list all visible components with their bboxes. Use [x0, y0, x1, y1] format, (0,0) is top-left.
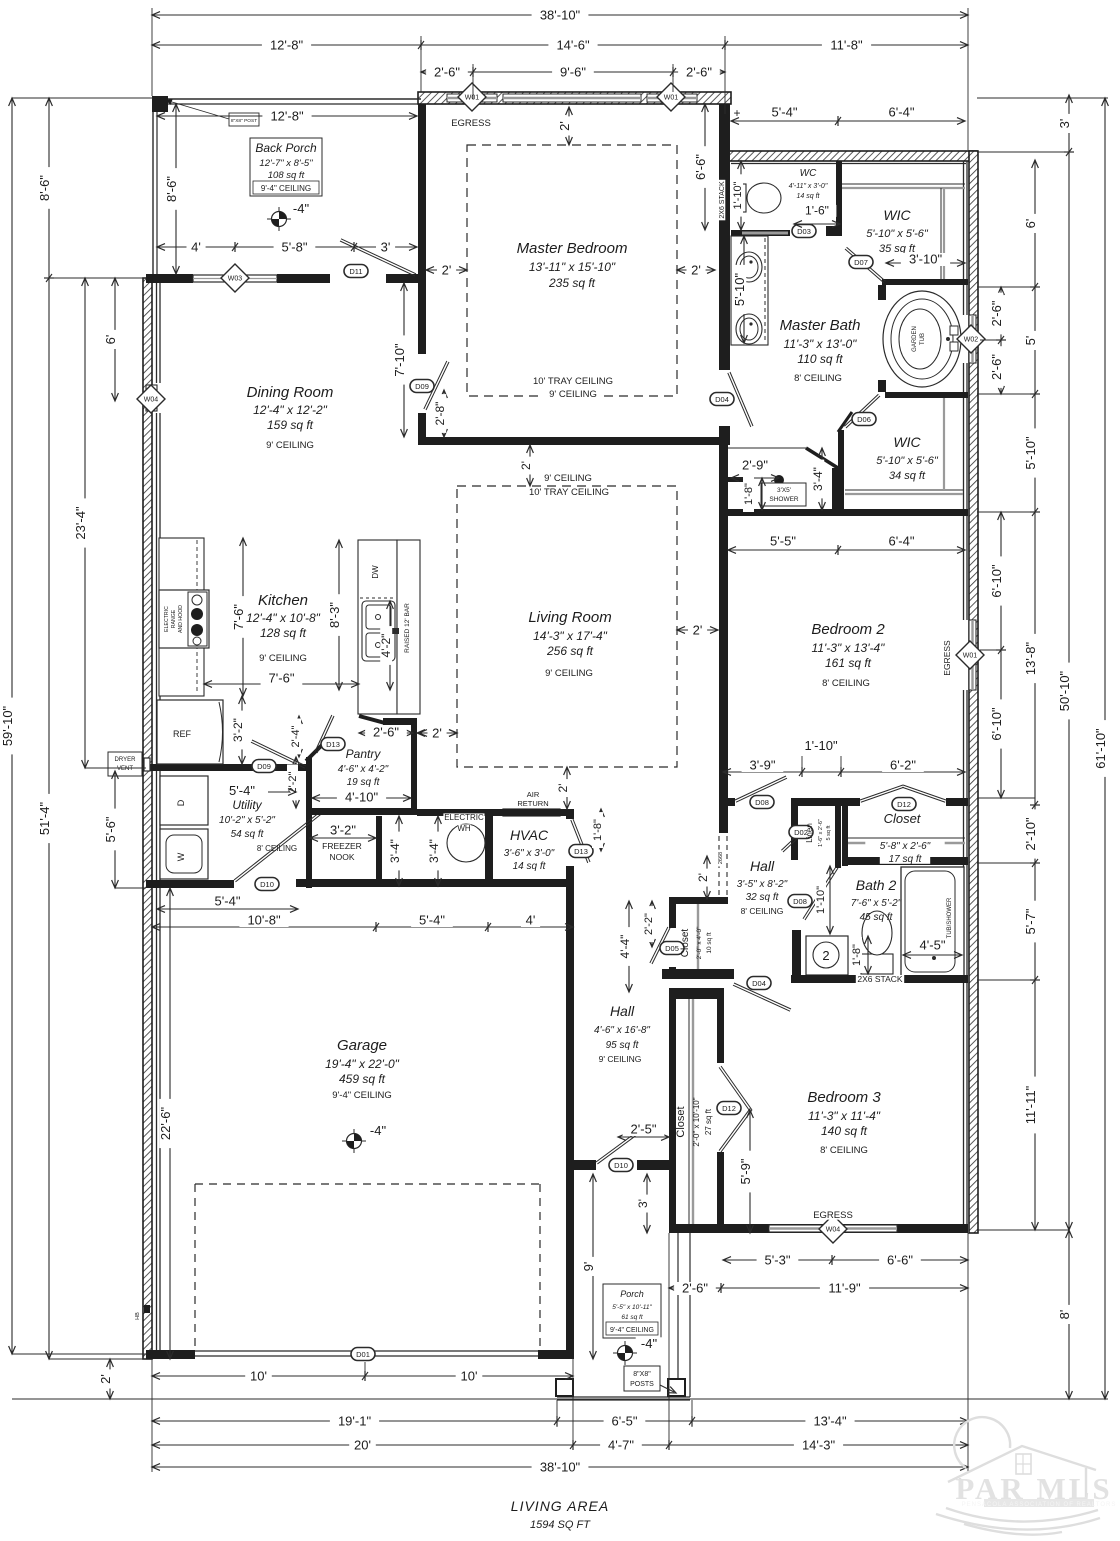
svg-text:RANGE: RANGE [171, 609, 177, 628]
svg-text:2'-5": 2'-5" [631, 1122, 657, 1137]
door D04 master bath leaf [730, 372, 753, 426]
door D01 oval label [351, 1348, 375, 1361]
svg-text:W01: W01 [664, 95, 679, 102]
svg-text:Hall: Hall [610, 1003, 635, 1019]
wall: WC south wall with pocket door D03 [731, 230, 790, 236]
front porch post right [668, 1379, 685, 1396]
WC toilet bowl [747, 183, 781, 213]
window W01 bedroom2 diamond [956, 641, 984, 669]
svg-text:6'-5": 6'-5" [612, 1414, 638, 1429]
wall: hall south wall east piece [637, 1160, 669, 1170]
svg-text:7'-10": 7'-10" [392, 343, 407, 377]
svg-text:AND HOOD: AND HOOD [178, 605, 184, 633]
svg-text:D04: D04 [715, 395, 729, 404]
svg-text:6': 6' [1023, 219, 1038, 229]
svg-text:8"X8" POST: 8"X8" POST [231, 118, 257, 124]
svg-text:D09: D09 [415, 382, 429, 391]
svg-text:14'-3": 14'-3" [802, 1438, 836, 1453]
left dim chain 59'-10 [11, 98, 13, 1354]
svg-text:5'-10" x 5'-6": 5'-10" x 5'-6" [866, 228, 929, 240]
dim shower 2'-9 [731, 477, 779, 479]
svg-text:4'-2": 4'-2" [379, 634, 393, 658]
svg-text:Closet: Closet [884, 811, 922, 826]
svg-text:4'-5": 4'-5" [920, 938, 946, 953]
svg-text:8' CEILING: 8' CEILING [741, 906, 784, 916]
shower drain [774, 475, 784, 485]
dim utility 5'-4 lower [157, 908, 298, 910]
back porch corner post 8x8 [152, 96, 168, 112]
svg-text:Porch: Porch [620, 1289, 644, 1299]
svg-text:5'-10": 5'-10" [732, 273, 747, 307]
svg-text:3'-4": 3'-4" [388, 839, 402, 863]
dim bottom garage 10' / 10' [152, 1375, 573, 1377]
svg-text:4': 4' [526, 913, 536, 928]
door D08 bath2 oval label [788, 895, 812, 908]
right dim chain 6'/5'/5'-10/13'-8/2'-10/5'-7/11'-11 [1034, 160, 1036, 1230]
svg-text:8'-3": 8'-3" [327, 602, 342, 628]
hose bib HB mark [135, 1311, 141, 1321]
door D04 oval label [710, 393, 734, 406]
dim REF 3'-2 vertical [241, 696, 243, 764]
svg-text:3'-2": 3'-2" [330, 823, 356, 838]
watermark PAR MLS logo [936, 1417, 1100, 1535]
svg-text:Garage: Garage [337, 1037, 387, 1054]
dim bottom row 20' / 4'-7 / 14'-3 [152, 1444, 968, 1446]
window W01 right diamond [657, 83, 685, 111]
svg-text:38'-10": 38'-10" [540, 8, 581, 23]
dryer vent label box [108, 752, 142, 776]
dim 2'-8 dining jog vertical [443, 390, 445, 437]
svg-text:38'-10": 38'-10" [540, 1460, 581, 1475]
svg-text:19 sq ft: 19 sq ft [347, 777, 381, 788]
svg-text:7'-6": 7'-6" [269, 671, 295, 686]
svg-text:Hall: Hall [750, 858, 775, 874]
svg-text:D10: D10 [614, 1161, 628, 1170]
svg-text:17 sq ft: 17 sq ft [889, 854, 923, 865]
WIC2 shelf rails [845, 489, 963, 491]
window W02 diamond [957, 325, 985, 353]
svg-text:D08: D08 [793, 897, 807, 906]
shower area top thin line [727, 447, 806, 449]
door D09 oval label [410, 380, 434, 393]
window W03 band [193, 275, 277, 282]
front porch edge lines [677, 1233, 679, 1397]
dim bottom row 38'-10 [152, 1466, 968, 1468]
wall: garage east wall upper [566, 885, 574, 1160]
wall: HVAC north wall [485, 809, 573, 816]
dim 2' master window vertical [568, 107, 570, 145]
svg-text:9'-4" CEILING: 9'-4" CEILING [261, 184, 311, 193]
dim kitchen 7'-6 horizontal [204, 683, 359, 685]
svg-text:2': 2' [432, 726, 442, 741]
svg-text:1'-8": 1'-8" [851, 944, 863, 966]
dim nook wall 3'-4 vertical x2 [398, 816, 400, 886]
svg-text:61'-10": 61'-10" [1093, 728, 1108, 769]
svg-text:4'-6" x 16'-8": 4'-6" x 16'-8" [594, 1025, 650, 1036]
svg-text:Master Bath: Master Bath [780, 317, 861, 334]
wall: dining room north wall mid segment [277, 274, 330, 283]
svg-text:3'-4": 3'-4" [427, 839, 441, 863]
svg-text:5'-4": 5'-4" [229, 783, 255, 798]
dim bath2 4'-5 [903, 954, 962, 956]
dim hall closet 4'-4 vertical [628, 901, 630, 992]
door D10 hall leaf [596, 1134, 634, 1162]
wall: linen east / bath2 west wall [835, 806, 841, 860]
WIC1 shelf rails [842, 183, 965, 185]
door D05 leaf [652, 928, 670, 964]
door D08 bath2 leaf [805, 868, 838, 920]
svg-text:45 sq ft: 45 sq ft [860, 912, 894, 923]
dim HVAC 2' vertical [566, 767, 568, 809]
svg-text:14'-6": 14'-6" [556, 38, 590, 53]
door D04 bedroom3 oval label [747, 977, 771, 990]
dim porch inner row 4'/5'-8/3' [157, 246, 417, 248]
svg-text:6'-10": 6'-10" [989, 707, 1004, 741]
svg-text:22'-6": 22'-6" [158, 1107, 173, 1141]
door D12 bed3 oval label [717, 1102, 741, 1115]
svg-text:9'-4" CEILING: 9'-4" CEILING [610, 1327, 654, 1334]
svg-text:10'-2" x 5'-2": 10'-2" x 5'-2" [219, 815, 275, 826]
svg-text:6'-4": 6'-4" [889, 105, 915, 120]
svg-text:6'-2": 6'-2" [890, 758, 916, 773]
bath2 toilet bowl [862, 911, 892, 955]
wall: pantry north-west angled wall [359, 716, 385, 723]
exterior wall: right wall inner face lines [963, 161, 965, 315]
wall: hall south wall west piece [566, 1160, 596, 1170]
label EGRESS bedroom2 rotated [943, 641, 952, 675]
svg-text:SHOWER: SHOWER [769, 496, 799, 503]
svg-text:D05: D05 [665, 944, 679, 953]
svg-text:9' CEILING: 9' CEILING [544, 473, 592, 484]
svg-text:11'-3" x 13'-0": 11'-3" x 13'-0" [784, 337, 858, 351]
svg-text:8' CEILING: 8' CEILING [257, 844, 297, 853]
shower angled wall [806, 448, 838, 468]
svg-text:W01: W01 [963, 653, 978, 660]
svg-text:Dining Room: Dining Room [247, 384, 334, 401]
svg-text:3': 3' [1057, 119, 1072, 129]
WIC1 shelf rail vertical [943, 188, 945, 279]
svg-text:5'-5": 5'-5" [770, 534, 796, 549]
label EGRESS bedroom3 [815, 1210, 852, 1220]
door D03 oval label [792, 225, 816, 238]
svg-text:8"X8": 8"X8" [633, 1371, 651, 1378]
svg-text:1'-8": 1'-8" [592, 819, 604, 841]
dim living 2' top vertical [529, 445, 531, 486]
svg-text:11'-8": 11'-8" [830, 38, 863, 53]
svg-text:61 sq ft: 61 sq ft [621, 1314, 644, 1321]
svg-text:2'-6": 2'-6" [989, 300, 1004, 326]
wall: master bedroom east / WC west wall [719, 104, 730, 370]
svg-text:9' CEILING: 9' CEILING [549, 389, 597, 400]
svg-text:5 sq ft: 5 sq ft [826, 825, 832, 840]
left dim chain 6' [114, 278, 116, 401]
svg-text:5'-10" x 5'-6": 5'-10" x 5'-6" [876, 455, 939, 467]
wall: shower east wall [832, 468, 838, 509]
bed3 closet shelf rail [692, 999, 694, 1224]
svg-text:8'-6": 8'-6" [164, 176, 179, 202]
svg-text:RETURN: RETURN [517, 799, 548, 808]
window W01 left diamond [458, 83, 486, 111]
window W04 dining band [146, 385, 157, 411]
svg-text:Utility: Utility [232, 798, 262, 812]
svg-text:PENSACOLA ASSOCIATION OF REALT: PENSACOLA ASSOCIATION OF REALTORS [962, 1502, 1117, 1508]
master bedroom tray ceiling dashed rect [467, 145, 677, 396]
vanity sink 1 [736, 252, 762, 282]
door D06 leaf [846, 396, 880, 428]
svg-text:2'-6": 2'-6" [373, 725, 399, 740]
svg-text:54 sq ft: 54 sq ft [231, 829, 265, 840]
wall: utility south wall west piece [146, 880, 234, 888]
svg-text:11'-3" x 11'-4": 11'-3" x 11'-4" [808, 1109, 881, 1123]
dim pantry 2'-2 vertical [295, 757, 297, 808]
svg-text:1594 SQ FT: 1594 SQ FT [530, 1519, 591, 1531]
svg-text:12'-4" x 12'-2": 12'-4" x 12'-2" [253, 403, 328, 417]
svg-text:8' CEILING: 8' CEILING [820, 1145, 868, 1156]
svg-text:5'-8" x 2'-6": 5'-8" x 2'-6" [880, 841, 931, 852]
svg-text:WC: WC [800, 168, 817, 179]
hall closet shelf rail [697, 904, 699, 969]
svg-text:3'-2": 3'-2" [231, 718, 245, 742]
svg-text:5'-5" x 10'-11": 5'-5" x 10'-11" [612, 1304, 652, 1311]
dim 2' dining to master wall [426, 269, 467, 271]
shower label box 3x5 SHOWER [761, 483, 806, 506]
svg-text:8'-6": 8'-6" [37, 175, 52, 201]
svg-text:2': 2' [98, 1374, 113, 1384]
dishwasher DW [360, 597, 395, 599]
living room tray ceiling dashed rect [457, 486, 677, 767]
svg-text:D11: D11 [349, 267, 362, 276]
svg-text:REF: REF [173, 729, 192, 739]
svg-text:19'-1": 19'-1" [338, 1414, 372, 1429]
dim row top 3: 2'-6 / 9'-6 / 2'-6 [421, 71, 725, 73]
dim hall closet 2'-2 vertical [651, 901, 653, 947]
svg-text:POSTS: POSTS [630, 1381, 654, 1388]
door D02 leaf [783, 838, 798, 852]
svg-text:1'-8": 1'-8" [743, 483, 755, 505]
svg-text:10 sq ft: 10 sq ft [706, 932, 713, 954]
wall: master bedroom west wall upper [418, 104, 426, 354]
door D11 leaf [340, 241, 415, 276]
svg-text:95 sq ft: 95 sq ft [606, 1040, 640, 1051]
door D10 utility leaf [234, 812, 320, 880]
svg-text:Bedroom 2: Bedroom 2 [811, 621, 885, 638]
svg-text:6'-6": 6'-6" [887, 1253, 913, 1268]
bath2 vanity [806, 936, 848, 975]
window W01 left band [447, 94, 497, 102]
svg-text:2'-10": 2'-10" [1023, 817, 1038, 851]
svg-text:-4": -4" [641, 1336, 658, 1351]
svg-text:RAISED 12' BAR: RAISED 12' BAR [404, 603, 411, 653]
svg-text:WH: WH [457, 824, 471, 833]
svg-text:3'X5': 3'X5' [777, 487, 791, 494]
dim kitchen 7'-6 vertical [242, 538, 244, 696]
door D09 utility oval label [252, 760, 276, 773]
svg-text:1'-10": 1'-10" [732, 181, 744, 209]
svg-text:1'-10": 1'-10" [804, 738, 838, 753]
svg-text:9'-4" CEILING: 9'-4" CEILING [332, 1090, 392, 1101]
svg-text:12'-4" x 10'-8": 12'-4" x 10'-8" [246, 611, 321, 625]
wall: garage east wall lower / porch side [566, 1170, 574, 1359]
svg-text:13'-4": 13'-4" [813, 1414, 847, 1429]
svg-text:W01: W01 [465, 95, 480, 102]
kitchen range ELECTRIC RANGE AND HOOD [159, 590, 209, 648]
svg-text:Bath 2: Bath 2 [856, 877, 897, 893]
raised 12 bar band [397, 540, 420, 714]
svg-text:12'-8": 12'-8" [270, 109, 304, 124]
svg-text:D08: D08 [755, 798, 769, 807]
svg-text:2668: 2668 [718, 852, 724, 864]
grade reference line bottom [12, 1398, 1108, 1400]
door D13 pantry leaf [317, 716, 334, 753]
svg-text:7'-6" x 5'-2": 7'-6" x 5'-2" [851, 898, 902, 909]
wall: HVAC east wall lower cap [566, 866, 574, 885]
door D08 oval label [750, 796, 774, 809]
dim kitchen 4'-2 vertical [389, 601, 391, 690]
bath2 toilet tank [861, 954, 893, 974]
wall: living-bedroom2 divider wall upper [719, 445, 728, 833]
left dim 2' bottom [109, 1359, 111, 1399]
window W03 diamond label [221, 264, 249, 292]
svg-text:2'-0" x 4'-0": 2'-0" x 4'-0" [696, 926, 703, 959]
svg-text:FREEZER: FREEZER [322, 841, 362, 851]
wall: WIC2 north wall [885, 392, 968, 398]
svg-text:5'-4": 5'-4" [215, 894, 241, 909]
dim row top 4: 5'-4 / 6'-4 [731, 120, 965, 122]
front porch post left [556, 1379, 573, 1396]
svg-text:2': 2' [557, 121, 572, 131]
svg-text:ELECTRIC: ELECTRIC [444, 813, 484, 822]
svg-text:2: 2 [822, 948, 829, 963]
exterior wall: garage bottom (south) wall piece right [538, 1350, 574, 1359]
electric water heater circle [447, 824, 485, 862]
svg-text:235 sq ft: 235 sq ft [548, 276, 596, 290]
wall: living south wall (pantry to HVAC) [417, 809, 493, 816]
svg-text:9' CEILING: 9' CEILING [266, 440, 314, 451]
WIC2 shelf rail vertical [943, 398, 945, 490]
dim bed3 5'-9 vertical [749, 1110, 751, 1233]
label EGRESS master window [453, 118, 490, 128]
kitchen sink double bowl [362, 601, 395, 661]
svg-text:5'-3": 5'-3" [765, 1253, 791, 1268]
WC toilet tank [733, 184, 746, 212]
back porch top wall [153, 98, 421, 100]
svg-text:5'-6": 5'-6" [103, 816, 118, 842]
svg-text:2'-6": 2'-6" [682, 1281, 708, 1296]
wall: bedroom2 south wall east piece [946, 798, 968, 806]
svg-text:5'-9": 5'-9" [738, 1158, 753, 1184]
dim WC door 1'-6 [794, 223, 840, 225]
wall: utility-freezer nook divider wall [306, 764, 312, 888]
shower half wall [727, 477, 752, 482]
svg-text:LIVING AREA: LIVING AREA [511, 1498, 609, 1514]
dim HVAC 1'-8 vertical [600, 809, 602, 851]
dryer vent wall mark [144, 758, 150, 771]
svg-text:9' CEILING: 9' CEILING [259, 653, 307, 664]
wall: hall closet south wall / junction wall [662, 969, 734, 979]
svg-text:VENT: VENT [117, 766, 133, 772]
svg-text:WIC: WIC [893, 434, 921, 450]
porch label box [603, 1284, 661, 1338]
dim pantry 4'-10 [312, 797, 411, 799]
svg-text:D12: D12 [897, 800, 911, 809]
compass front porch [613, 1352, 637, 1354]
svg-text:128 sq ft: 128 sq ft [260, 626, 307, 640]
window W04 diamond [819, 1215, 847, 1243]
dim shower 1'-8 vertical [761, 478, 763, 510]
svg-text:4': 4' [191, 240, 201, 255]
svg-text:2X6 STACK: 2X6 STACK [857, 974, 903, 984]
svg-text:6': 6' [103, 335, 118, 345]
svg-text:Master Bedroom: Master Bedroom [517, 240, 628, 257]
svg-text:51'-4": 51'-4" [37, 802, 52, 836]
wall: dining room north wall right post [386, 274, 418, 283]
svg-text:5'-10": 5'-10" [1023, 436, 1038, 470]
dim living 2' tray west [417, 732, 457, 734]
dim row top 2: 12'-8 / 14'-6 / 11'-8 [152, 44, 968, 46]
svg-text:14'-3" x 17'-4": 14'-3" x 17'-4" [533, 629, 608, 643]
svg-text:19'-4" x 22'-0": 19'-4" x 22'-0" [325, 1057, 400, 1071]
svg-text:3'-9": 3'-9" [750, 758, 776, 773]
svg-text:5': 5' [1023, 336, 1038, 346]
wall: WIC2 west angled corner [838, 412, 852, 432]
wall: pantry east wall [411, 718, 417, 808]
bath2 tub/shower [901, 867, 964, 976]
svg-text:3': 3' [636, 1199, 650, 1208]
svg-text:9' CEILING: 9' CEILING [599, 1054, 642, 1064]
svg-text:D13: D13 [326, 740, 340, 749]
wall: bed3 closet east wall upper [717, 999, 724, 1063]
dim bottom row 19'-1 / 6'-5 / 13'-4 [152, 1420, 968, 1422]
svg-text:9': 9' [581, 1262, 596, 1272]
svg-text:108 sq ft: 108 sq ft [268, 170, 305, 181]
room label: Back Porch box [250, 138, 322, 196]
svg-text:DW: DW [371, 565, 380, 579]
svg-text:59'-10": 59'-10" [0, 705, 15, 746]
svg-text:D13: D13 [574, 847, 588, 856]
svg-text:5'-8": 5'-8" [282, 240, 308, 255]
dim shower 3'-4 vertical [821, 448, 823, 510]
dim bedroom2 5'-5 / 6'-4 [728, 549, 965, 551]
svg-text:4'-11" x 3'-0": 4'-11" x 3'-0" [789, 183, 828, 190]
svg-text:110 sq ft: 110 sq ft [797, 352, 843, 366]
svg-text:D: D [176, 799, 186, 806]
svg-text:NOOK: NOOK [329, 852, 354, 862]
bedroom2 closet shelf rails [848, 837, 965, 839]
left dim 5'-6 utility [114, 771, 116, 888]
svg-text:EGRESS: EGRESS [451, 118, 491, 129]
wall stub below WIC1 at tub nook [878, 285, 886, 300]
svg-text:3'-4": 3'-4" [811, 467, 825, 491]
svg-text:W02: W02 [964, 337, 979, 344]
wall: HVAC west wall [485, 809, 493, 885]
svg-text:-4": -4" [370, 1123, 387, 1138]
label: 2X6 STACK bath2 [856, 975, 904, 984]
left dim 22'-6 garage [169, 888, 171, 1359]
wall: pantry west angled wall [306, 744, 323, 761]
svg-text:2'-6": 2'-6" [989, 354, 1004, 380]
wall: bedroom2 closet south wall / bath2 north wall [842, 857, 968, 865]
svg-text:256 sq ft: 256 sq ft [546, 644, 594, 658]
svg-text:D12: D12 [722, 1104, 736, 1113]
vanity sink 2 [736, 314, 762, 344]
svg-text:TUB: TUB [920, 333, 926, 345]
left dim chain 23'-4 [84, 278, 86, 768]
svg-text:4'-7": 4'-7" [608, 1438, 634, 1453]
master bath vanity counter [731, 236, 768, 345]
svg-text:4'-10": 4'-10" [345, 790, 379, 805]
top extension lines [151, 8, 153, 96]
dim porch vertical 8'-6 inner [175, 104, 177, 274]
